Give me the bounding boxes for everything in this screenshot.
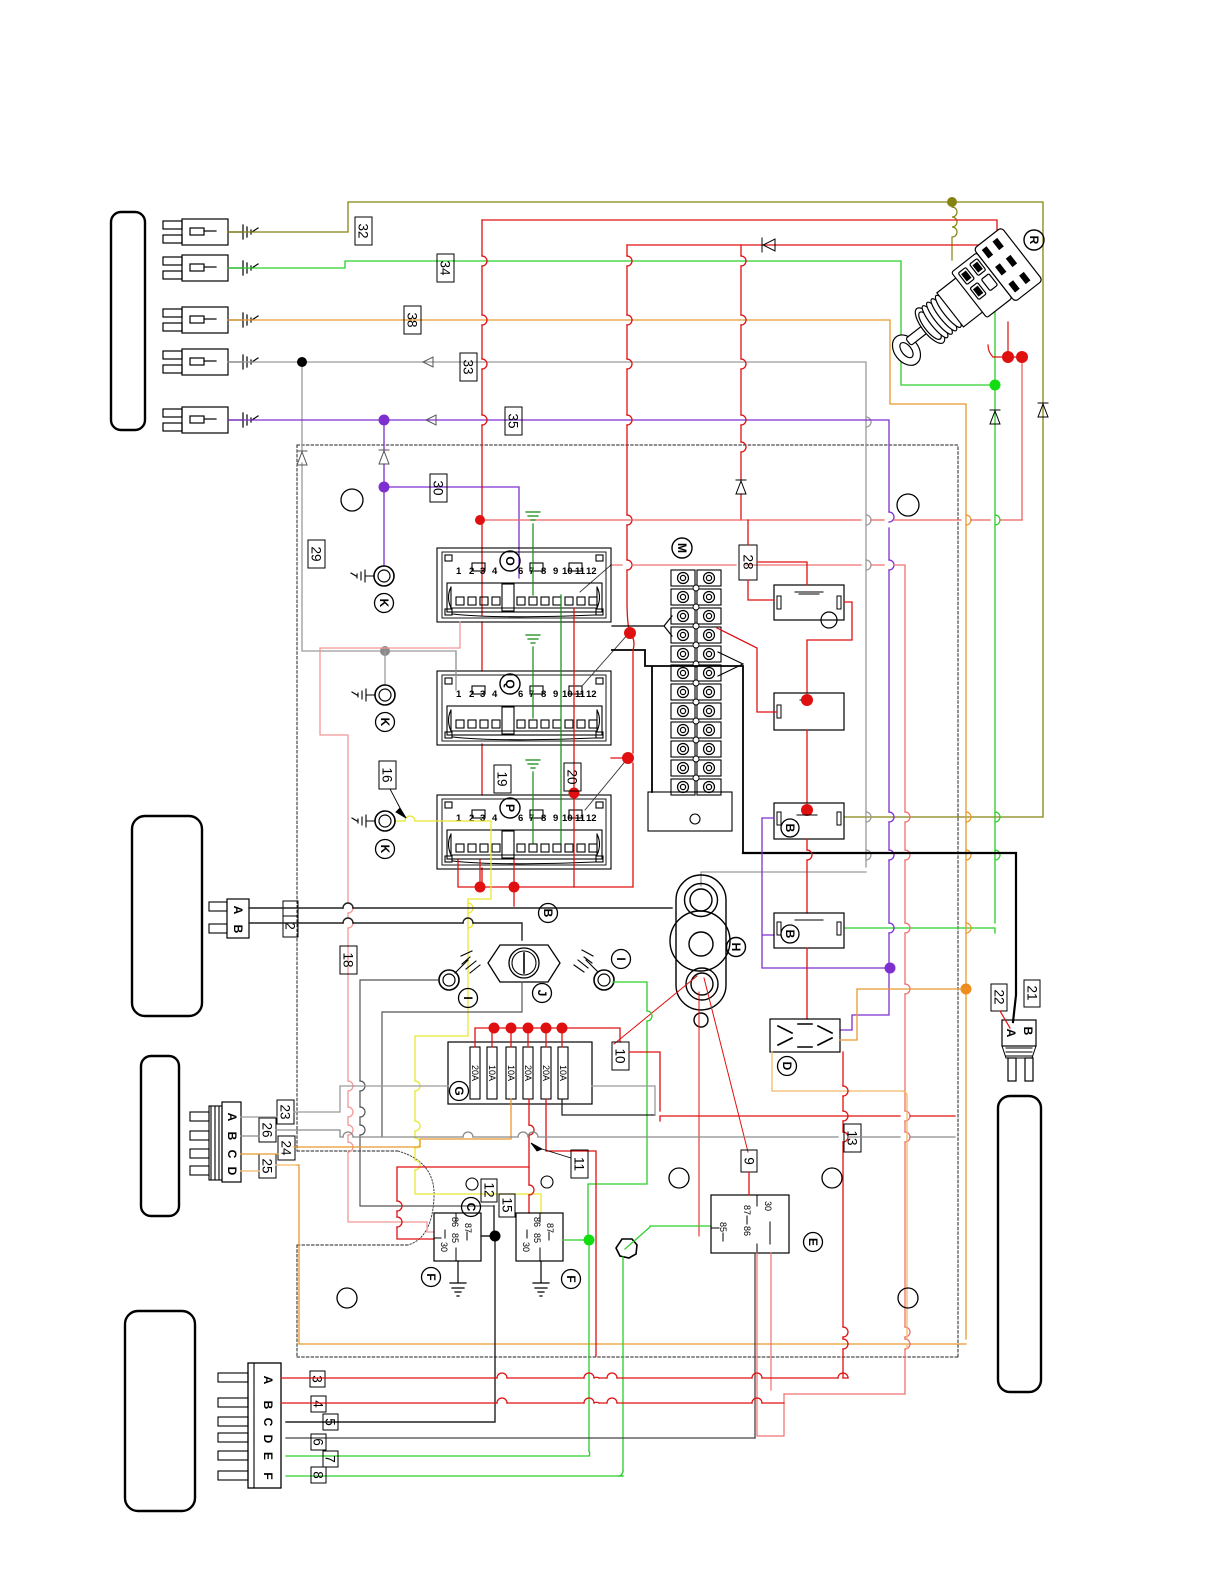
svg-text:9: 9 — [742, 1157, 757, 1165]
label 12 — [481, 1179, 497, 1202]
circle P — [500, 798, 520, 818]
svg-text:C: C — [261, 1418, 275, 1427]
purple dot right — [885, 963, 896, 974]
black wire B to H — [249, 923, 522, 940]
svg-text:F: F — [261, 1472, 275, 1479]
arrow on purple — [426, 415, 436, 425]
svg-text:19: 19 — [495, 771, 510, 786]
svg-text:12: 12 — [586, 566, 597, 577]
relay 2 — [774, 693, 844, 730]
diode on x741 — [736, 480, 746, 494]
label 34 — [437, 254, 454, 282]
svg-text:F: F — [424, 1273, 438, 1280]
svg-text:2: 2 — [469, 566, 474, 577]
gray stub to K2 — [384, 651, 386, 684]
label 22 — [991, 984, 1007, 1011]
svg-text:5: 5 — [323, 1418, 338, 1426]
svg-text:3: 3 — [480, 813, 485, 824]
svg-text:23: 23 — [278, 1104, 293, 1119]
red branch x741 — [740, 245, 742, 520]
svg-text:3: 3 — [480, 566, 485, 577]
label 15 — [499, 1194, 515, 1217]
green dot F2 87 — [286, 1240, 589, 1456]
svg-text:A: A — [261, 1376, 275, 1385]
K2 side ground — [352, 689, 375, 701]
svg-text:3: 3 — [480, 689, 485, 700]
wire 26 gray long — [241, 1130, 955, 1137]
green from I2 down — [588, 982, 647, 1236]
wire J down — [382, 982, 522, 1137]
K ring terminal 1 — [374, 566, 394, 586]
K1 side ground — [351, 570, 374, 582]
svg-text:B: B — [261, 1401, 275, 1410]
red relay4 down to D — [806, 948, 808, 1019]
red dot M2 — [622, 752, 634, 764]
svg-text:12: 12 — [586, 813, 597, 824]
N connector 21 22 — [1002, 1020, 1036, 1046]
red dots at switch — [1002, 351, 1014, 363]
black dot C 87 — [286, 1206, 495, 1422]
red dot q-p — [569, 788, 580, 799]
svg-text:11: 11 — [575, 689, 586, 700]
svg-text:4: 4 — [492, 566, 498, 577]
svg-text:O: O — [503, 556, 517, 565]
svg-text:8: 8 — [541, 566, 546, 577]
purple dot at 30 — [379, 482, 390, 493]
thick black wire to N connector — [743, 853, 1016, 1022]
svg-text:J: J — [535, 990, 549, 997]
orange bumps — [966, 515, 971, 933]
purple bumps — [889, 512, 894, 933]
green bumps — [995, 515, 1000, 860]
diode on olive — [1038, 403, 1048, 417]
svg-text:D: D — [780, 1062, 794, 1071]
circle M — [672, 538, 692, 558]
svg-text:P: P — [503, 804, 517, 812]
circle O — [500, 551, 520, 571]
circle Q — [500, 674, 520, 694]
svg-text:11: 11 — [572, 1157, 587, 1171]
label 20 — [564, 763, 581, 791]
svg-text:8: 8 — [541, 689, 546, 700]
svg-text:20A: 20A — [523, 1065, 533, 1081]
red top feed to switch — [482, 220, 997, 275]
purple junction dot conn — [379, 415, 390, 426]
svg-text:10A: 10A — [558, 1065, 568, 1081]
label 11 with leader — [571, 1150, 588, 1178]
svg-text:9: 9 — [553, 813, 558, 824]
svg-text:13: 13 — [845, 1130, 860, 1145]
svg-text:9: 9 — [553, 689, 558, 700]
svg-text:30: 30 — [439, 1242, 449, 1252]
fuse4 red drop to F2 — [528, 1099, 530, 1213]
red leader H to 10 — [614, 976, 697, 1044]
circle K2 — [376, 713, 395, 732]
svg-text:6: 6 — [518, 566, 523, 577]
label 23 — [277, 1100, 294, 1124]
K ring terminal 3 — [375, 811, 395, 831]
svg-text:10: 10 — [562, 813, 573, 824]
ring terminal I1 — [439, 970, 459, 990]
svg-text:B: B — [541, 909, 555, 918]
green pin wire P — [532, 795, 534, 843]
relay 1 — [774, 585, 844, 620]
svg-text:11: 11 — [575, 813, 586, 824]
relay 3 B — [774, 803, 844, 839]
svg-text:30: 30 — [431, 480, 446, 495]
red stub 22 — [1000, 1011, 1010, 1028]
svg-text:1: 1 — [456, 689, 462, 700]
svg-text:2: 2 — [469, 689, 474, 700]
red stub from bus to wire A — [513, 887, 515, 906]
svg-text:I: I — [614, 957, 628, 960]
red feed 2 to switch — [627, 245, 985, 262]
svg-text:85: 85 — [718, 1222, 728, 1232]
label 13 — [844, 1124, 861, 1152]
wire 4 red B — [281, 1402, 784, 1404]
svg-text:4: 4 — [492, 813, 498, 824]
wire orange 38 — [228, 320, 966, 1344]
wire gray 33 — [228, 362, 866, 886]
K3 side ground — [352, 815, 375, 827]
svg-text:10: 10 — [562, 689, 573, 700]
diode on gray branch — [297, 451, 307, 465]
connector block Q — [437, 671, 611, 745]
svg-text:38: 38 — [405, 312, 420, 327]
svg-text:87: 87 — [463, 1223, 473, 1233]
red vertical B x627 — [627, 245, 630, 633]
dark green link O-Q-P — [560, 595, 562, 843]
svg-text:32: 32 — [356, 223, 371, 238]
svg-text:10A: 10A — [506, 1065, 516, 1081]
hex bolt — [616, 1239, 637, 1258]
red dots under P — [475, 882, 486, 893]
label 30 — [430, 474, 447, 502]
svg-text:20A: 20A — [470, 1065, 480, 1081]
label 18 — [340, 946, 357, 974]
label 29 — [308, 540, 325, 568]
svg-text:16: 16 — [380, 767, 395, 782]
wire 25 orange — [241, 1165, 296, 1171]
svg-text:C: C — [464, 1203, 478, 1212]
svg-text:12: 12 — [586, 689, 597, 700]
label 35 — [505, 407, 522, 435]
circle I1 — [459, 989, 478, 1008]
wire green 34 — [228, 261, 995, 933]
ground sym 5 — [228, 413, 258, 427]
circle B relay3 — [781, 819, 799, 837]
svg-text:35: 35 — [506, 413, 521, 428]
fuse5 red drop — [546, 1099, 596, 1356]
diagonal into O — [580, 565, 611, 592]
small circle mark top — [341, 489, 363, 511]
salmon wire O to x905 — [611, 565, 905, 1394]
circle B relay4 — [781, 925, 799, 943]
red bus y520 — [480, 519, 1022, 521]
label 28 — [739, 545, 757, 580]
olive coil to switch — [952, 207, 957, 260]
label 38 — [404, 306, 421, 334]
wire I1 to J — [360, 980, 494, 1206]
leader curve to relay C — [398, 1151, 434, 1245]
svg-text:20A: 20A — [541, 1065, 551, 1081]
red M riser — [630, 633, 634, 887]
red relay3-4 — [806, 839, 808, 913]
svg-text:25: 25 — [260, 1158, 275, 1173]
svg-text:10: 10 — [562, 566, 573, 577]
earth ground above P — [526, 760, 540, 795]
green junction dot — [990, 380, 1001, 391]
svg-text:9: 9 — [553, 566, 558, 577]
red from D down — [842, 1052, 844, 1378]
svg-text:D: D — [261, 1435, 275, 1444]
svg-text:30: 30 — [521, 1242, 531, 1252]
circle K1 — [375, 594, 394, 613]
circle R — [1024, 230, 1044, 250]
svg-text:85: 85 — [450, 1233, 460, 1243]
earth ground above Q — [526, 635, 540, 671]
svg-text:C: C — [225, 1150, 239, 1159]
red 28 wiring — [748, 520, 852, 693]
blank label box left 2 — [132, 816, 202, 1016]
ground sym 4 — [228, 355, 258, 369]
blank label box right tall — [998, 1096, 1041, 1392]
label 26 — [259, 1118, 276, 1142]
hex sensor J — [488, 945, 560, 982]
svg-text:G: G — [452, 1086, 466, 1095]
svg-text:A: A — [225, 1113, 239, 1122]
svg-text:29: 29 — [309, 546, 324, 561]
small circle near relay1 — [821, 612, 837, 628]
svg-text:33: 33 — [461, 359, 476, 374]
wire 24 orange — [241, 1147, 296, 1154]
earth ground above O — [526, 512, 540, 548]
black frame around lower strip — [612, 650, 743, 853]
svg-text:K: K — [378, 718, 392, 727]
sub box with hole — [648, 792, 732, 831]
svg-text:2: 2 — [469, 813, 474, 824]
svg-text:B: B — [225, 1132, 239, 1141]
label 21 — [1024, 980, 1040, 1007]
svg-text:A: A — [1004, 1029, 1018, 1038]
label 32 — [355, 217, 372, 245]
svg-text:26: 26 — [260, 1122, 275, 1137]
dashed notch segment — [297, 1151, 408, 1245]
svg-text:6: 6 — [311, 1438, 326, 1446]
ground sym 1 — [228, 225, 258, 239]
diagonal Q to M dot — [582, 633, 629, 686]
svg-text:B: B — [783, 930, 797, 939]
svg-text:1: 1 — [456, 566, 462, 577]
wire olive 32 — [228, 202, 1043, 817]
black leader O to strip — [612, 616, 672, 636]
diagonal P to M dot2 — [585, 758, 628, 810]
orange D drop — [772, 1052, 907, 1349]
svg-text:D: D — [225, 1167, 239, 1176]
plug connector 1 — [163, 219, 228, 245]
red 9 to E — [748, 1172, 750, 1195]
red stub Q to M2 — [611, 757, 628, 759]
svg-text:30: 30 — [763, 1201, 773, 1211]
green from switch — [994, 266, 996, 380]
red center drop from H — [698, 992, 700, 1236]
svg-text:86: 86 — [532, 1217, 542, 1227]
orange into D right — [840, 989, 966, 1040]
svg-text:4: 4 — [492, 689, 498, 700]
red relay2-3 — [806, 730, 808, 803]
svg-text:6: 6 — [518, 813, 523, 824]
circle G — [450, 1082, 469, 1101]
gray junction dot — [380, 646, 390, 656]
plug connector 4 — [163, 349, 228, 375]
wire purple 35 — [228, 420, 889, 1030]
red fuse bus — [475, 1028, 620, 1047]
wire 3 red A — [281, 1377, 848, 1379]
black wire A to H — [249, 907, 672, 909]
svg-text:R: R — [1027, 236, 1041, 245]
svg-text:K: K — [378, 845, 392, 854]
svg-text:3: 3 — [310, 1375, 325, 1383]
red branch fuse4 to relay C — [397, 1167, 529, 1239]
svg-text:F: F — [564, 1275, 578, 1282]
svg-text:4: 4 — [311, 1400, 326, 1408]
svg-text:21: 21 — [1025, 985, 1040, 1000]
green pin wire O — [532, 548, 534, 595]
svg-text:28: 28 — [741, 554, 756, 569]
svg-text:E: E — [261, 1452, 275, 1460]
circle H — [727, 938, 746, 957]
red dot M1 — [624, 627, 636, 639]
svg-text:18: 18 — [341, 952, 356, 967]
green wire F drop — [286, 1257, 623, 1476]
gray riser into Q — [455, 651, 457, 690]
K ring terminal 2 — [375, 685, 395, 705]
svg-text:8: 8 — [311, 1471, 326, 1479]
blank label box left 4 — [125, 1311, 195, 1511]
wire labels 3-8 — [310, 1371, 325, 1387]
svg-text:22: 22 — [992, 989, 1007, 1004]
red below E — [757, 1253, 784, 1436]
red dot on bus left — [475, 515, 485, 525]
svg-text:15: 15 — [500, 1197, 515, 1212]
connector block P — [437, 795, 611, 869]
svg-text:7: 7 — [323, 1455, 338, 1463]
fuse3 orange drop — [296, 1099, 511, 1147]
green hex to E — [625, 1226, 711, 1249]
svg-text:34: 34 — [438, 260, 453, 276]
red link 10 to 13 wire — [629, 1052, 955, 1121]
small circle mark right — [897, 494, 919, 516]
svg-text:86: 86 — [742, 1226, 752, 1236]
label 10 — [612, 1042, 629, 1070]
ground sym 2 — [228, 261, 258, 275]
circle B wire label — [539, 904, 558, 923]
plug connector 5 — [163, 407, 228, 433]
ground relay C — [450, 1261, 466, 1296]
circle I2 — [612, 950, 631, 969]
relay D — [770, 1019, 840, 1052]
ground relay F2 — [533, 1261, 549, 1296]
red under-P bus — [458, 860, 632, 887]
ground sym 3 — [228, 313, 258, 327]
circle J — [533, 984, 552, 1003]
svg-text:Q: Q — [503, 679, 517, 688]
pink 18 wire — [320, 622, 460, 1232]
svg-text:10A: 10A — [487, 1065, 497, 1081]
purple to relay3 — [762, 818, 884, 968]
circle K3 — [376, 840, 395, 859]
olive junction dot — [947, 197, 957, 207]
red from switch x1022 — [1021, 357, 1023, 520]
purple branch down to 30 — [384, 420, 519, 578]
diode on green — [990, 410, 1000, 424]
yellow wire from K3 — [395, 821, 541, 1213]
small circles 12/15 — [466, 1178, 478, 1190]
circle C — [462, 1198, 481, 1217]
svg-text:87: 87 — [545, 1223, 555, 1233]
switch terminal reds — [988, 322, 1022, 357]
label 2 boxes — [283, 901, 298, 916]
black junction dot on gray — [297, 357, 307, 367]
diode on purple branch — [379, 450, 389, 464]
ring terminal I2 — [594, 970, 614, 990]
connector block O — [437, 548, 611, 622]
svg-text:M: M — [675, 543, 689, 553]
circle F1 — [422, 1268, 441, 1287]
svg-text:6: 6 — [518, 689, 523, 700]
svg-text:12: 12 — [482, 1182, 497, 1197]
red relay2 left — [717, 628, 777, 712]
svg-text:87: 87 — [742, 1205, 752, 1215]
label 9 — [741, 1150, 757, 1172]
svg-text:B: B — [231, 925, 245, 934]
label 19 — [494, 765, 511, 793]
label 16 with leader — [379, 761, 396, 789]
label 24 — [278, 1136, 295, 1160]
circle E — [804, 1233, 823, 1252]
gray branch down — [302, 362, 456, 690]
svg-text:20: 20 — [565, 769, 580, 784]
dashed harness border — [297, 445, 958, 1357]
fuse6 black drop — [562, 1099, 655, 1115]
orange junction dot — [961, 984, 972, 995]
red leader H to 9 — [704, 978, 748, 1152]
svg-text:H: H — [729, 943, 743, 952]
label 25 — [259, 1154, 276, 1178]
svg-text:E: E — [806, 1238, 820, 1246]
svg-text:B: B — [1021, 1027, 1035, 1036]
circle D — [778, 1057, 797, 1076]
red vertical A x482 — [481, 220, 483, 883]
svg-text:1: 1 — [456, 813, 462, 824]
circle F2 — [562, 1270, 581, 1289]
svg-text:A: A — [231, 906, 245, 915]
svg-text:11: 11 — [575, 566, 586, 577]
plug connector 3 — [163, 307, 228, 333]
red riser x574 — [573, 608, 575, 887]
gray bumps — [866, 417, 871, 860]
svg-text:24: 24 — [279, 1140, 294, 1156]
misc small circles — [669, 1168, 689, 1188]
arrow on gray — [423, 357, 433, 367]
svg-text:B: B — [783, 824, 797, 833]
svg-text:10: 10 — [613, 1048, 628, 1063]
wire 23 gray — [241, 1086, 655, 1117]
svg-text:K: K — [377, 599, 391, 608]
svg-text:85: 85 — [532, 1233, 542, 1243]
plug connector 2 — [163, 255, 228, 281]
svg-text:I: I — [461, 996, 475, 999]
